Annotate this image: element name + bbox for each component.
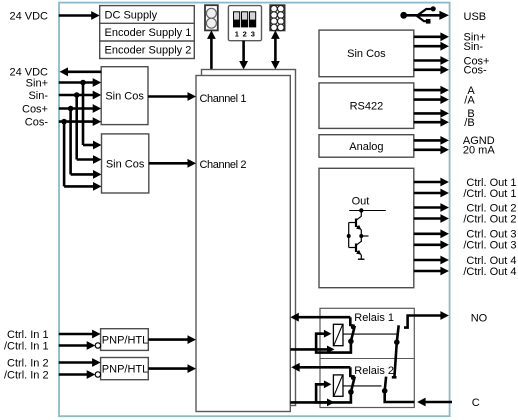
svg-text:1: 1 bbox=[235, 30, 239, 39]
svg-text:Channel 1: Channel 1 bbox=[200, 93, 247, 105]
svg-text:Cos-: Cos- bbox=[464, 65, 488, 77]
svg-text:Sin-: Sin- bbox=[28, 90, 48, 102]
svg-text:PNP/HTL: PNP/HTL bbox=[102, 364, 148, 376]
svg-text:Encoder Supply 2: Encoder Supply 2 bbox=[105, 45, 192, 57]
svg-text:/Ctrl. In 1: /Ctrl. In 1 bbox=[4, 340, 49, 352]
svg-text:DC Supply: DC Supply bbox=[105, 9, 158, 21]
svg-text:Sin Cos: Sin Cos bbox=[347, 48, 386, 60]
svg-text:20 mA: 20 mA bbox=[463, 145, 495, 157]
svg-text:Sin-: Sin- bbox=[464, 41, 484, 53]
svg-text:Cos-: Cos- bbox=[25, 116, 49, 128]
svg-text:RS422: RS422 bbox=[350, 101, 384, 113]
svg-text:/A: /A bbox=[464, 94, 475, 106]
svg-text:PNP/HTL: PNP/HTL bbox=[102, 335, 148, 347]
svg-text:C: C bbox=[472, 397, 480, 409]
svg-text:Out: Out bbox=[352, 195, 370, 207]
svg-text:/Ctrl. Out 4: /Ctrl. Out 4 bbox=[463, 266, 516, 278]
svg-text:Analog: Analog bbox=[349, 141, 383, 153]
svg-text:/Ctrl. Out 2: /Ctrl. Out 2 bbox=[463, 213, 516, 225]
svg-text:Channel 2: Channel 2 bbox=[200, 159, 247, 171]
svg-text:Sin Cos: Sin Cos bbox=[106, 158, 145, 170]
svg-text:Sin Cos: Sin Cos bbox=[105, 91, 144, 103]
svg-text:3: 3 bbox=[251, 30, 255, 39]
svg-text:/Ctrl. Out 3: /Ctrl. Out 3 bbox=[463, 240, 516, 252]
svg-text:24 VDC: 24 VDC bbox=[9, 10, 48, 22]
svg-text:Relais 1: Relais 1 bbox=[354, 312, 394, 324]
svg-text:/Ctrl. Out 1: /Ctrl. Out 1 bbox=[463, 188, 516, 200]
svg-text:/Ctrl. In 2: /Ctrl. In 2 bbox=[4, 369, 49, 381]
svg-text:Ctrl. In 1: Ctrl. In 1 bbox=[7, 329, 49, 341]
svg-text:/B: /B bbox=[464, 117, 474, 129]
svg-text:Relais 2: Relais 2 bbox=[354, 365, 394, 377]
svg-text:Encoder Supply 1: Encoder Supply 1 bbox=[105, 27, 192, 39]
svg-text:Cos+: Cos+ bbox=[22, 103, 48, 115]
svg-text:2: 2 bbox=[243, 30, 247, 39]
svg-text:Ctrl. In 2: Ctrl. In 2 bbox=[7, 357, 49, 369]
svg-text:USB: USB bbox=[464, 11, 487, 23]
svg-text:NO: NO bbox=[471, 313, 488, 325]
svg-text:Sin+: Sin+ bbox=[26, 77, 48, 89]
